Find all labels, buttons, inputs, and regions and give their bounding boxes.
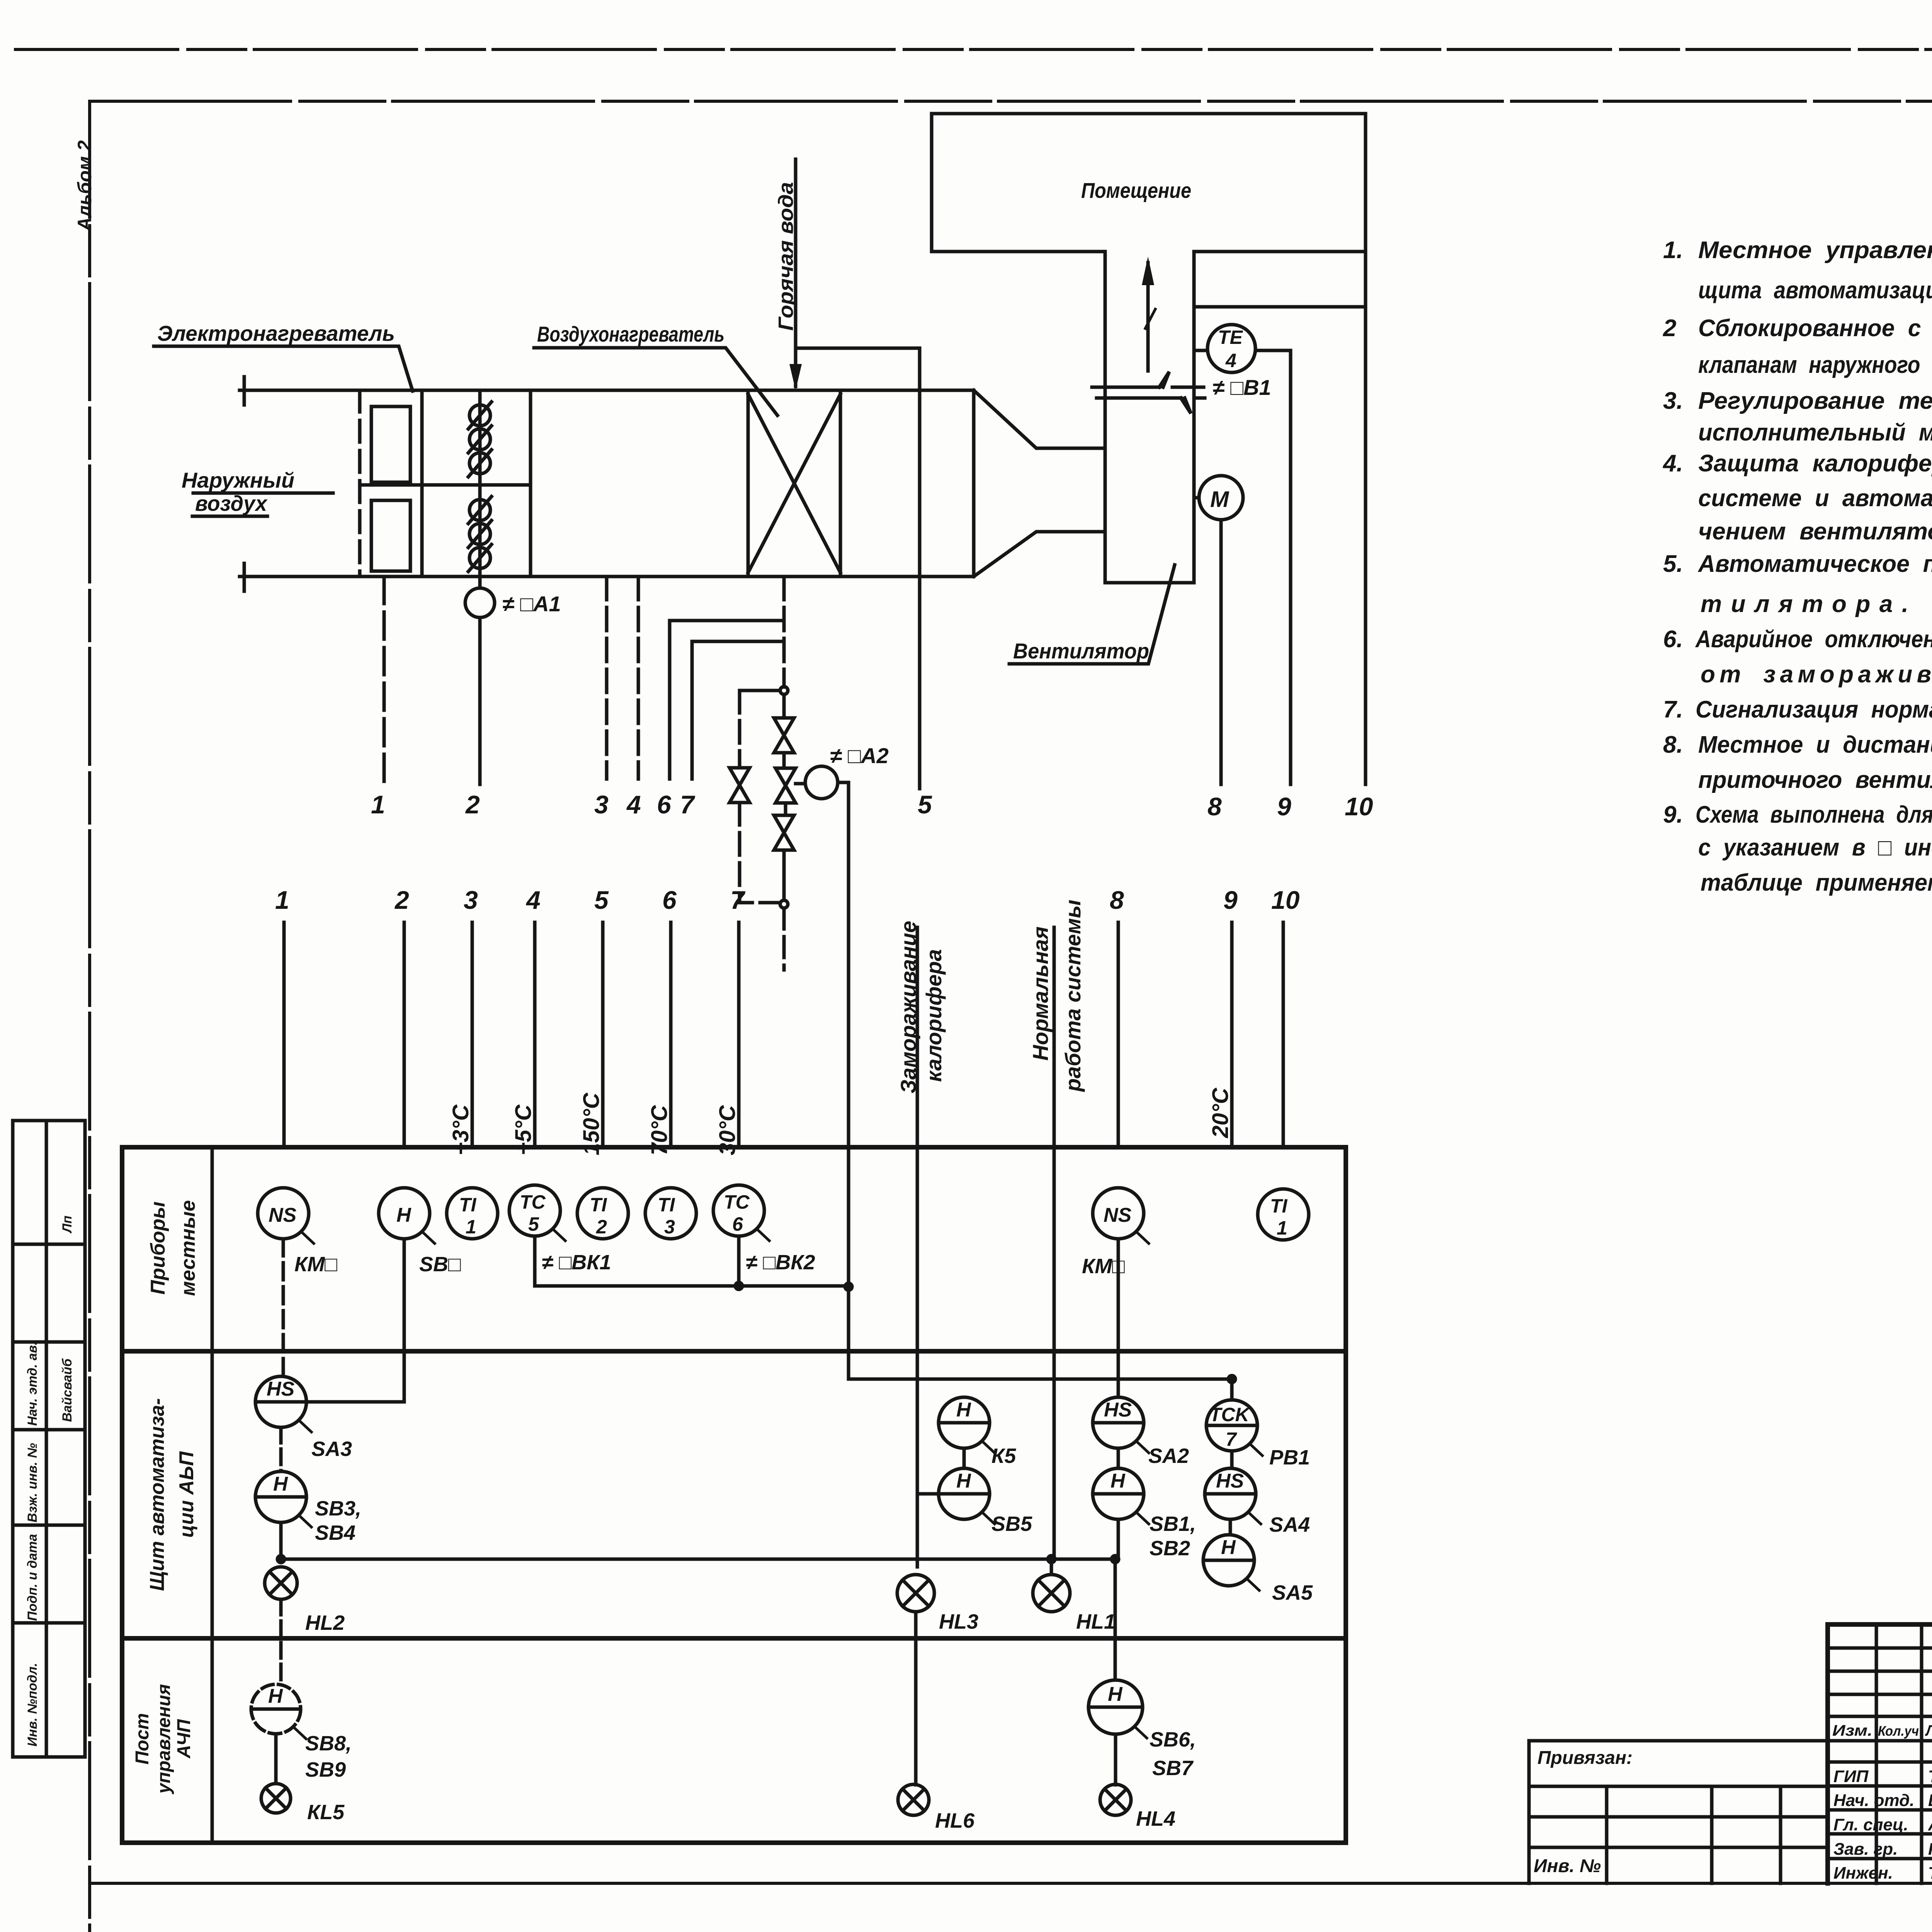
svg-text:Вайсвайб: Вайсвайб bbox=[60, 1358, 75, 1422]
svg-text:Электронагреватель: Электронагреватель bbox=[157, 321, 395, 345]
svg-text:SВ2: SВ2 bbox=[1150, 1537, 1190, 1560]
svg-text:HL2: HL2 bbox=[305, 1611, 345, 1634]
sheet outer top dashed border bbox=[15, 48, 1932, 51]
table row divider 2 bbox=[122, 1636, 1346, 1641]
panel selector HS / SA3 (col 1) bbox=[282, 1239, 285, 1376]
normal line down to HL1 bbox=[1051, 1147, 1054, 1575]
svg-text:3: 3 bbox=[664, 1216, 675, 1238]
stamp column vertical divider bbox=[45, 1121, 48, 1757]
main line valve 3 bbox=[774, 803, 794, 850]
revision grid row lines bbox=[1828, 1648, 1932, 1716]
privyazan box left edge bbox=[1527, 1741, 1531, 1883]
column 8 line bbox=[1117, 922, 1120, 1147]
heater element circle 3 bbox=[469, 453, 490, 474]
duct left end tick bottom bbox=[243, 563, 246, 591]
svg-text:8: 8 bbox=[1110, 886, 1124, 914]
main line segment to lower node bbox=[782, 850, 786, 900]
thermometer TI-1 (col 10) bbox=[1258, 1189, 1309, 1240]
svg-text:TCK: TCK bbox=[1209, 1404, 1251, 1425]
dashed continuation below lower node bbox=[782, 908, 786, 970]
svg-text:Привязан:: Привязан: bbox=[1537, 1748, 1633, 1768]
table outer border bbox=[122, 1147, 1346, 1843]
local post button H / SB8 SB9 bbox=[251, 1684, 301, 1734]
column 10 line bbox=[1282, 922, 1285, 1147]
column 6 line bbox=[669, 922, 673, 1147]
node junction upper bbox=[780, 687, 788, 694]
junction normal-line bbox=[1048, 1556, 1055, 1563]
sheet inner frame top bbox=[90, 100, 1932, 103]
revision header row bottom / privyazan top line bbox=[1529, 1739, 1932, 1743]
svg-text:Н: Н bbox=[268, 1685, 283, 1708]
outside air duct top line bbox=[240, 389, 974, 392]
svg-text:≠ □А1: ≠ □А1 bbox=[502, 592, 561, 616]
panel button H / SB3 SB4 (col 1) bbox=[279, 1427, 283, 1471]
local magnetic starter NS (col 1) bbox=[258, 1188, 309, 1239]
svg-text:HS: HS bbox=[267, 1378, 295, 1400]
svg-text:HL4: HL4 bbox=[1136, 1807, 1175, 1830]
svg-text:Вентилятор: Вентилятор bbox=[1013, 639, 1149, 663]
svg-text:Зав. гр.: Зав. гр. bbox=[1833, 1840, 1898, 1859]
stamp row line bbox=[13, 1340, 85, 1344]
svg-text:Юрикова: Юрикова bbox=[1928, 1840, 1932, 1859]
heat exchanger pipe drop (wire 5) bbox=[918, 348, 922, 789]
svg-text:Схема выполнена для приточн: Схема выполнена для приточной системы П1… bbox=[1696, 801, 1932, 828]
col1 wire HL2 to SB8 (dashed) bbox=[279, 1599, 283, 1685]
button H / SB1 SB2 (col 8) bbox=[1117, 1448, 1120, 1468]
svg-text:Лист: Лист bbox=[1925, 1722, 1932, 1739]
TE-4 stub to duct bbox=[1194, 349, 1207, 352]
svg-text:TC: TC bbox=[520, 1191, 546, 1213]
impulse line from actuator down bbox=[838, 782, 849, 1379]
wire 3 bbox=[605, 577, 609, 779]
wire down from SB3 bbox=[279, 1522, 283, 1559]
svg-text:Н: Н bbox=[396, 1204, 412, 1226]
stamp row line bbox=[13, 1621, 85, 1625]
svg-text:1: 1 bbox=[371, 790, 385, 819]
duct section edge after heater bbox=[972, 390, 976, 577]
svg-text:8.: 8. bbox=[1663, 731, 1683, 758]
M wire down (wire 8) bbox=[1219, 520, 1223, 784]
wire 6 L-run to hot water pipe bbox=[670, 621, 784, 779]
svg-text:HS: HS bbox=[1216, 1470, 1244, 1492]
svg-text:Помещение: Помещение bbox=[1081, 178, 1191, 202]
capillary line TC5 bbox=[535, 1236, 849, 1286]
button H / SB5 bbox=[939, 1468, 990, 1519]
fan housing bottom bbox=[1105, 581, 1194, 585]
svg-text:NS: NS bbox=[269, 1204, 297, 1226]
svg-text:7.: 7. bbox=[1663, 696, 1683, 723]
freeze line continuation down bbox=[916, 1147, 919, 1567]
duct left end tick top bbox=[243, 377, 246, 405]
air heater box with X (Воздухонагреватель) bbox=[748, 390, 840, 577]
revision grid outer bbox=[1825, 1624, 1830, 1883]
svg-text:10: 10 bbox=[1345, 792, 1373, 821]
bypass branch lower (dashed) bbox=[740, 803, 780, 903]
svg-text:1.: 1. bbox=[1663, 237, 1683, 264]
control pipe from duct (dashed) bbox=[782, 577, 786, 687]
svg-text:Изм.: Изм. bbox=[1832, 1722, 1872, 1739]
svg-text:щита автоматизации и дистан: щита автоматизации и дистанционное управ… bbox=[1698, 277, 1932, 304]
svg-text:9: 9 bbox=[1223, 886, 1238, 914]
svg-text:КL5: КL5 bbox=[307, 1801, 345, 1824]
button H / SB6 SB7 bbox=[1088, 1680, 1143, 1734]
svg-text:SВ7: SВ7 bbox=[1152, 1757, 1194, 1780]
svg-text:TI: TI bbox=[459, 1194, 477, 1216]
stamp row line bbox=[13, 1524, 85, 1527]
svg-text:Тиханова: Тиханова bbox=[1928, 1864, 1932, 1883]
capillary line TC6 bbox=[737, 1236, 741, 1286]
svg-text:Нач. отд.: Нач. отд. bbox=[1833, 1791, 1915, 1810]
svg-text:Сблокированное с электродвиг: Сблокированное с электродвигателем прито… bbox=[1698, 315, 1932, 342]
room box (Помещение) bbox=[932, 114, 1366, 252]
svg-text:9.: 9. bbox=[1663, 801, 1683, 828]
svg-text:2: 2 bbox=[465, 790, 480, 819]
svg-text:Афанина: Афанина bbox=[1928, 1815, 1932, 1834]
svg-text:HL6: HL6 bbox=[935, 1809, 975, 1832]
svg-text:6: 6 bbox=[732, 1213, 743, 1235]
svg-text:≠ □А2: ≠ □А2 bbox=[830, 743, 889, 768]
heater element circle 6 bbox=[469, 548, 490, 568]
svg-text:SA5: SA5 bbox=[1272, 1581, 1313, 1604]
svg-text:с указанием в □ индексов: с указанием в □ индексов в обозначении а… bbox=[1698, 834, 1932, 861]
svg-text:HS: HS bbox=[1104, 1399, 1132, 1421]
fan to room connector line bbox=[1194, 305, 1366, 309]
starter NS (col 8) bbox=[1093, 1188, 1144, 1239]
svg-text:АЧП: АЧП bbox=[174, 1719, 194, 1759]
svg-text:Щит автоматиза-: Щит автоматиза- bbox=[146, 1398, 168, 1591]
svg-text:2: 2 bbox=[596, 1216, 607, 1238]
column 5 line bbox=[601, 922, 605, 1147]
junction col8 bbox=[1112, 1556, 1119, 1563]
electric heater section right edge bbox=[529, 390, 532, 577]
wire 2 from electric heater bbox=[478, 577, 482, 588]
svg-text:NS: NS bbox=[1104, 1204, 1132, 1226]
svg-text:HL1: HL1 bbox=[1076, 1610, 1116, 1633]
svg-text:2: 2 bbox=[394, 886, 409, 914]
svg-text:Инжен.: Инжен. bbox=[1833, 1864, 1893, 1883]
svg-text:приточного вентилятора.: приточного вентилятора. bbox=[1698, 767, 1932, 793]
hot water supply line with arrow bbox=[794, 159, 798, 386]
svg-text:Н: Н bbox=[1111, 1470, 1126, 1492]
svg-text:Взж. инв. №: Взж. инв. № bbox=[25, 1443, 40, 1522]
svg-text:Наружный: Наружный bbox=[182, 468, 294, 492]
svg-text:РВ1: РВ1 bbox=[1269, 1446, 1310, 1469]
svg-text:Пост: Пост bbox=[132, 1713, 153, 1764]
bypass valve bbox=[730, 768, 750, 803]
svg-text:чением вентилятора.: чением вентилятора. bbox=[1698, 518, 1932, 545]
svg-text:SВ9: SВ9 bbox=[305, 1758, 346, 1781]
svg-text:Н: Н bbox=[1221, 1536, 1236, 1559]
junction col1 bbox=[277, 1556, 284, 1563]
svg-text:Замораживание: Замораживание bbox=[896, 921, 920, 1094]
left margin stamp column bbox=[13, 1121, 85, 1757]
svg-text:Нач. этд. ав.: Нач. этд. ав. bbox=[25, 1342, 40, 1426]
svg-text:управления: управления bbox=[154, 1684, 174, 1794]
damper inner rectangle upper bbox=[371, 406, 410, 482]
relay H / K5 bbox=[939, 1397, 990, 1448]
column 2 line bbox=[403, 922, 406, 1147]
svg-text:≠ □В1: ≠ □В1 bbox=[1213, 375, 1271, 400]
svg-text:Трушин: Трушин bbox=[1928, 1767, 1932, 1786]
heater mid horizontal line bbox=[360, 483, 531, 487]
col8 wire to SB6 bbox=[1114, 1559, 1117, 1680]
svg-text:калорифера: калорифера bbox=[922, 949, 946, 1082]
svg-text:работа системы: работа системы bbox=[1061, 900, 1085, 1092]
wire SB8 to KL5 bbox=[274, 1734, 278, 1784]
selector HS / SA2 (col 8) bbox=[1117, 1239, 1120, 1397]
svg-text:ции АЬП: ции АЬП bbox=[175, 1451, 198, 1538]
sheet inner frame left bbox=[88, 101, 91, 1932]
wire col2 to HS SA3 bbox=[306, 1239, 404, 1402]
wire 1 from damper bbox=[383, 577, 386, 784]
svg-text:Инв. №подл.: Инв. №подл. bbox=[25, 1663, 40, 1747]
svg-text:6.: 6. bbox=[1663, 626, 1683, 653]
normal operation signal line bbox=[1053, 927, 1056, 1147]
svg-text:исполнительный механизм клап: исполнительный механизм клапана на тепло… bbox=[1698, 419, 1932, 446]
M stub to fan bbox=[1194, 496, 1199, 500]
svg-text:1: 1 bbox=[275, 886, 289, 914]
svg-text:таблице применяемости лист 8: таблице применяемости лист 8. bbox=[1701, 869, 1932, 896]
wire SB6 to HL4 bbox=[1114, 1734, 1117, 1785]
svg-text:Шунский: Шунский bbox=[1928, 1791, 1932, 1810]
svg-text:7: 7 bbox=[680, 790, 696, 819]
svg-text:≠ □ВК2: ≠ □ВК2 bbox=[746, 1251, 815, 1274]
signal lamp КL5 bbox=[261, 1784, 291, 1813]
thermometer TI-3 (col 6) bbox=[645, 1188, 696, 1239]
svg-text:Горячая вода: Горячая вода bbox=[774, 182, 798, 331]
column 9 line bbox=[1230, 922, 1234, 1147]
svg-text:TI: TI bbox=[1270, 1195, 1288, 1217]
actuator stub bbox=[796, 782, 805, 786]
svg-text:1: 1 bbox=[1277, 1217, 1287, 1239]
svg-text:Лп: Лп bbox=[60, 1216, 75, 1234]
air damper box (Электронагреватель section) bbox=[358, 390, 362, 577]
freeze signal line bbox=[916, 927, 919, 1147]
time relay TCK-7 / РВ1 bbox=[1230, 1383, 1234, 1400]
revision grid top bbox=[1828, 1622, 1932, 1627]
svg-text:SВ3,: SВ3, bbox=[315, 1497, 361, 1520]
svg-text:Альбом 2: Альбом 2 bbox=[74, 140, 95, 232]
svg-text:3.: 3. bbox=[1663, 388, 1683, 414]
svg-text:Сигнализация нормальной рабо: Сигнализация нормальной работы приточной… bbox=[1696, 696, 1932, 723]
button H / SA5 bbox=[1229, 1519, 1232, 1535]
svg-text:2: 2 bbox=[1663, 315, 1676, 342]
svg-text:5.: 5. bbox=[1663, 551, 1683, 577]
freeze line HL3 to HL6 bbox=[914, 1612, 918, 1785]
svg-text:Воздухонагреватель: Воздухонагреватель bbox=[537, 322, 724, 346]
stamp row line bbox=[13, 1428, 85, 1432]
privyazan grid columns bbox=[1607, 1786, 1781, 1883]
thermostat TC-6 (col 7) bbox=[713, 1185, 764, 1236]
duct break symbol line 1 bbox=[1092, 372, 1204, 387]
temperature sensor TE-4 circle bbox=[1207, 325, 1255, 372]
junction col9 top bbox=[1228, 1376, 1235, 1383]
junction at impulse line bbox=[845, 1283, 852, 1290]
heater element circle 4 bbox=[469, 500, 490, 520]
svg-text:3: 3 bbox=[594, 790, 609, 819]
impulse horizontal from control line to col9 bbox=[849, 1378, 1232, 1381]
actuator circle ≠□А2 bbox=[805, 766, 838, 799]
junction at TC6 tap bbox=[735, 1282, 742, 1289]
svg-text:6: 6 bbox=[662, 886, 677, 914]
column 3 line bbox=[471, 922, 474, 1147]
svg-text:5: 5 bbox=[528, 1213, 539, 1235]
svg-text:Автоматическое подключение с: Автоматическое подключение системы регул… bbox=[1697, 551, 1932, 577]
svg-text:SA3: SA3 bbox=[311, 1437, 352, 1461]
signal lamp HL3 bbox=[897, 1575, 934, 1612]
svg-text:Подп. и дата: Подп. и дата bbox=[25, 1534, 40, 1621]
svg-text:6: 6 bbox=[657, 790, 672, 819]
svg-text:SA2: SA2 bbox=[1148, 1444, 1189, 1468]
hot water pipe horizontal run bbox=[796, 347, 920, 350]
damper inner rectangle lower bbox=[371, 500, 410, 571]
outside air duct bottom line bbox=[240, 575, 974, 578]
thermostat TC-5 (col 4) bbox=[509, 1185, 560, 1236]
thermometer TI-1 (col 3) bbox=[447, 1188, 498, 1239]
long cross wire on panel bbox=[281, 1558, 1115, 1561]
svg-text:HL3: HL3 bbox=[939, 1610, 978, 1633]
freeze line tap to SB5 bbox=[917, 1492, 939, 1496]
main line valve 1 bbox=[774, 694, 794, 753]
air flow arrow to room bbox=[1146, 263, 1150, 371]
svg-text:5: 5 bbox=[594, 886, 609, 914]
staff row lines bbox=[1828, 1762, 1932, 1859]
stamp column outer box bbox=[13, 1121, 85, 1757]
heater element line bbox=[478, 390, 482, 577]
svg-text:TC: TC bbox=[724, 1191, 750, 1213]
svg-text:Кол.уч: Кол.уч bbox=[1878, 1723, 1919, 1739]
revision grid column lines bbox=[1876, 1624, 1932, 1883]
svg-text:9: 9 bbox=[1277, 792, 1291, 821]
selector HS / SA4 bbox=[1230, 1451, 1234, 1468]
bypass branch vertical (dashed) bbox=[738, 690, 742, 767]
sampling circle ≠□А1 bbox=[465, 588, 495, 617]
svg-text:Местное управление электродв: Местное управление электродвигателем при… bbox=[1698, 237, 1932, 264]
svg-text:КМ□: КМ□ bbox=[294, 1253, 337, 1276]
svg-text:TI: TI bbox=[590, 1194, 607, 1216]
svg-text:SВ5: SВ5 bbox=[992, 1512, 1032, 1536]
svg-text:SВ8,: SВ8, bbox=[305, 1732, 352, 1755]
node junction lower bbox=[780, 900, 788, 908]
svg-text:SВ4: SВ4 bbox=[315, 1521, 355, 1544]
column 7 line bbox=[737, 922, 741, 1147]
wire 7 L-run bbox=[692, 641, 782, 779]
svg-text:Защита калорифера от замора: Защита калорифера от замораживания при р… bbox=[1698, 450, 1932, 477]
svg-text:клапанам наружного воздуха: клапанам наружного воздуха и опробование… bbox=[1698, 352, 1932, 378]
main line valve 2 (control) bbox=[776, 753, 796, 803]
signal lamp HL4 bbox=[1100, 1784, 1131, 1815]
svg-text:SA4: SA4 bbox=[1269, 1513, 1310, 1536]
svg-text:8: 8 bbox=[1207, 792, 1222, 821]
wire SB1 down to junction bbox=[1117, 1519, 1120, 1559]
svg-text:Н: Н bbox=[956, 1470, 971, 1492]
svg-text:≠ □ВК1: ≠ □ВК1 bbox=[542, 1251, 611, 1274]
svg-text:1: 1 bbox=[466, 1216, 476, 1238]
signal lamp HL2 bbox=[265, 1567, 297, 1599]
transition cone bottom bbox=[974, 532, 1105, 577]
column 1 line bbox=[282, 922, 286, 1147]
svg-text:TE: TE bbox=[1218, 327, 1243, 348]
fan housing left wall bbox=[1104, 252, 1107, 583]
heater element circle 1 bbox=[469, 405, 490, 426]
fan housing right wall bbox=[1192, 252, 1196, 583]
heater element circle 5 bbox=[469, 524, 490, 544]
svg-text:7: 7 bbox=[730, 886, 746, 914]
svg-text:Местное и дистанционное упр: Местное и дистанционное управление элект… bbox=[1698, 731, 1932, 758]
svg-text:10: 10 bbox=[1271, 886, 1300, 914]
stamp row line bbox=[13, 1243, 85, 1246]
svg-text:4: 4 bbox=[626, 790, 641, 819]
signal lamp HL6 bbox=[898, 1784, 929, 1815]
svg-text:К5: К5 bbox=[992, 1444, 1016, 1468]
svg-text:4.: 4. bbox=[1662, 450, 1683, 477]
transition cone top bbox=[974, 390, 1105, 448]
svg-text:Н: Н bbox=[956, 1399, 971, 1421]
svg-text:местные: местные bbox=[177, 1200, 199, 1296]
svg-text:SВ1,: SВ1, bbox=[1150, 1512, 1196, 1536]
signal lamp HL1 bbox=[1033, 1575, 1070, 1612]
heater element circle 2 bbox=[469, 429, 490, 450]
svg-text:воздух: воздух bbox=[195, 491, 268, 515]
svg-text:SВ□: SВ□ bbox=[419, 1253, 461, 1276]
svg-text:4: 4 bbox=[1225, 350, 1236, 371]
svg-text:4: 4 bbox=[526, 886, 541, 914]
svg-text:системе и автоматический 3х: системе и автоматический 3х минутный про… bbox=[1698, 485, 1932, 512]
wire 2 lower part bbox=[478, 617, 482, 784]
svg-text:20°С: 20°С bbox=[1208, 1087, 1233, 1138]
sheet inner frame bottom bbox=[90, 1882, 1932, 1885]
svg-text:Инв. №: Инв. № bbox=[1534, 1856, 1601, 1876]
svg-text:5: 5 bbox=[918, 790, 932, 819]
svg-text:Приборы: Приборы bbox=[147, 1201, 169, 1294]
local pushbutton H (col 2) bbox=[379, 1188, 430, 1239]
bypass branch horizontal bbox=[740, 689, 780, 692]
TE-4 wire to line 9 bbox=[1255, 350, 1291, 784]
thermometer TI-2 (col 5) bbox=[577, 1188, 628, 1239]
svg-text:Аварийное отключение приточн: Аварийное отключение приточного вентилят… bbox=[1695, 626, 1932, 653]
svg-text:Нормальная: Нормальная bbox=[1028, 927, 1053, 1061]
svg-text:TI: TI bbox=[658, 1194, 675, 1216]
svg-text:Н: Н bbox=[273, 1473, 288, 1495]
motor M circle bbox=[1199, 476, 1243, 520]
wire 4 bbox=[637, 577, 640, 779]
svg-text:Регулирование температуры пр: Регулирование температуры приточного воз… bbox=[1698, 388, 1932, 414]
duct break symbol line 2 bbox=[1097, 398, 1205, 413]
link K5 to SB5 bbox=[963, 1448, 966, 1468]
room box right edge wire down (wire 10) bbox=[1364, 252, 1367, 784]
svg-text:М: М bbox=[1210, 487, 1230, 512]
svg-text:3: 3 bbox=[464, 886, 478, 914]
column 4 line bbox=[533, 922, 537, 1147]
svg-text:ГИП: ГИП bbox=[1833, 1767, 1869, 1786]
svg-text:SВ6,: SВ6, bbox=[1150, 1728, 1196, 1751]
svg-text:Н: Н bbox=[1108, 1683, 1123, 1706]
svg-text:7: 7 bbox=[1226, 1429, 1237, 1450]
table header column divider bbox=[211, 1147, 214, 1843]
privyazan grid rows bbox=[1529, 1786, 1828, 1847]
svg-text:Гл. спец.: Гл. спец. bbox=[1833, 1815, 1908, 1834]
table row divider 1 bbox=[122, 1349, 1346, 1354]
